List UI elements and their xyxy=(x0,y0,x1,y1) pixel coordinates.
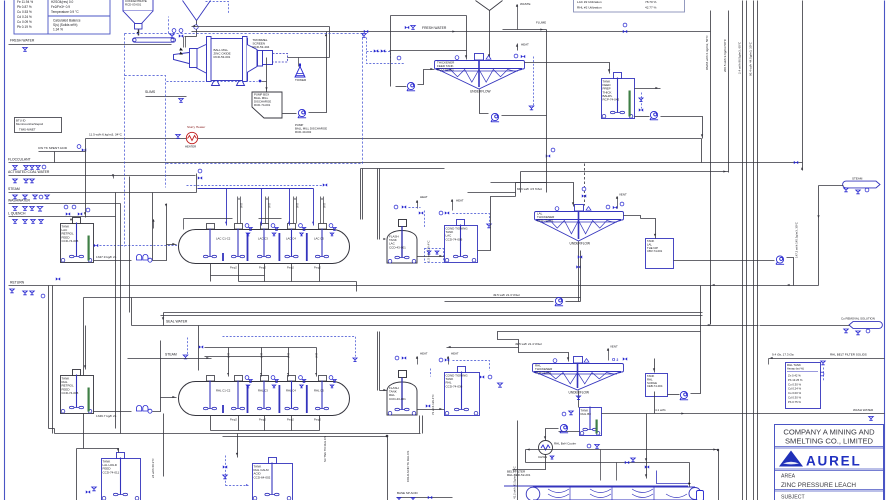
svg-text:FLUME: FLUME xyxy=(536,21,546,25)
pump RHL BF xyxy=(560,424,568,432)
wire x420 pair xyxy=(419,416,421,434)
svg-text:Pb 13.25 %: Pb 13.25 % xyxy=(788,378,803,382)
wire x710 lower xyxy=(710,286,712,325)
svg-text:200.5 wt/h 9.6g/m3 50°C: 200.5 wt/h 9.6g/m3 50°C xyxy=(723,38,727,72)
svg-text:WASTE: WASTE xyxy=(520,2,531,6)
wire tank LAC outlet xyxy=(94,260,132,262)
pump tank feed prep xyxy=(650,111,658,119)
wire flocculant extended xyxy=(331,162,803,164)
wire RHL thickener underflow xyxy=(578,391,580,408)
valves under steam capsule xyxy=(844,188,849,192)
wire x131 down xyxy=(131,298,133,326)
pump thickener feed xyxy=(407,82,415,90)
instrument dashed cluster top mid xyxy=(367,38,405,64)
valves flocculant xyxy=(13,166,18,170)
svg-text:HEAT: HEAT xyxy=(456,199,464,203)
svg-text:FLOCCULANT: FLOCCULANT xyxy=(8,157,31,161)
wire pump to header xyxy=(635,116,650,118)
instrument conditioning1 xyxy=(453,214,490,225)
instrument dashed conditioning2 xyxy=(453,361,490,371)
svg-text:RHL C5: RHL C5 xyxy=(314,389,324,393)
svg-text:CW TK SPENT ACID: CW TK SPENT ACID xyxy=(38,146,68,150)
svg-text:HEATER: HEATER xyxy=(185,145,196,149)
svg-text:Pmp2: Pmp2 xyxy=(314,266,321,270)
wire steam branch y171 xyxy=(521,171,729,173)
belt filter xyxy=(504,486,701,500)
svg-text:CCD-74-005: CCD-74-005 xyxy=(62,391,79,395)
svg-text:CCD-43-001: CCD-43-001 xyxy=(389,397,406,401)
svg-text:Pmp2: Pmp2 xyxy=(259,266,266,270)
tank RHL retrol feed xyxy=(61,370,94,414)
svg-text:9.4 t3s, 17.3 t3a: 9.4 t3s, 17.3 t3a xyxy=(772,353,794,357)
svg-text:L QUENCH: L QUENCH xyxy=(8,211,26,215)
wire LAL thickener overflow xyxy=(624,216,641,219)
svg-text:HEAT: HEAT xyxy=(420,195,428,199)
svg-text:RHL BELT FILTER SOLIDS: RHL BELT FILTER SOLIDS xyxy=(830,353,867,357)
pump ball mill discharge xyxy=(298,109,306,117)
svg-text:COMPANY A MINING AND: COMPANY A MINING AND xyxy=(783,428,875,437)
wire x152 steam drop xyxy=(152,193,154,261)
wire flash2 to conditioning2 xyxy=(418,409,445,411)
wire into pump box xyxy=(262,81,267,83)
svg-text:Pb 0.87 %: Pb 0.87 % xyxy=(17,5,32,9)
title block xyxy=(775,425,884,500)
svg-text:SMELTING CO., LIMITED: SMELTING CO., LIMITED xyxy=(785,437,874,446)
wire to autoclave 1 xyxy=(153,245,177,261)
wire tank to pump2 xyxy=(559,431,580,433)
valves washwater xyxy=(13,207,18,211)
slurry heater xyxy=(186,132,197,143)
wire pump discharge to return drop xyxy=(787,258,794,286)
svg-text:UNDERFLOW: UNDERFLOW xyxy=(470,89,491,93)
wire x87 down xyxy=(83,298,85,449)
svg-text:RHL #2 Utilization: RHL #2 Utilization xyxy=(577,5,602,9)
wire RHL top feed header xyxy=(205,347,317,349)
svg-text:AUREL: AUREL xyxy=(806,454,862,469)
svg-text:72 wt/h 129.4°C: 72 wt/h 129.4°C xyxy=(431,394,435,415)
svg-text:RCD-40-002: RCD-40-002 xyxy=(295,130,312,134)
box tank LAL N/P xyxy=(646,239,674,269)
wire thickener1 overflow to tank xyxy=(525,63,610,74)
svg-text:WASH WATER: WASH WATER xyxy=(853,408,874,412)
instrument near flash2 nozzle xyxy=(395,356,399,360)
svg-text:VNT: VNT xyxy=(288,353,291,358)
wire RHL second header xyxy=(205,356,289,358)
wire into LAL box xyxy=(641,219,656,239)
valves coal water xyxy=(13,179,18,183)
svg-text:CCD-74-005: CCD-74-005 xyxy=(62,239,79,243)
svg-text:49.5 wt/h 21.3 %Sol: 49.5 wt/h 21.3 %Sol xyxy=(493,293,520,297)
valves steam header xyxy=(13,195,18,199)
svg-text:2: 2 xyxy=(617,358,619,362)
svg-text:LAC C3: LAC C3 xyxy=(258,237,268,241)
valve on flocculant x796 xyxy=(794,161,798,164)
svg-text:Assay (wt %): Assay (wt %) xyxy=(787,367,804,371)
svg-text:Pmp2: Pmp2 xyxy=(287,266,294,270)
wire header junction x196 xyxy=(196,174,198,193)
svg-text:RHL BxH Cooler: RHL BxH Cooler xyxy=(554,442,576,446)
wire LAL thickener feed stepped xyxy=(478,197,516,251)
pump thickener1 underflow xyxy=(491,113,499,121)
wire surge tank feed xyxy=(654,359,656,373)
tank RHL BF xyxy=(580,407,602,436)
instrument blue cluster left of mill xyxy=(172,29,176,33)
ball mill xyxy=(174,37,273,86)
pump LAL transfer xyxy=(776,256,784,264)
svg-text:HEAT: HEAT xyxy=(451,352,459,356)
valve near steam x200 xyxy=(198,176,202,179)
conditioning tank LAC CCD-74-006 xyxy=(445,220,478,263)
svg-text:WASHWATER: WASHWATER xyxy=(8,198,30,202)
wire mill circuit vertical x329 xyxy=(329,27,331,58)
svg-text:STEAM: STEAM xyxy=(8,187,20,191)
flash tank RHL CCD-43-001 xyxy=(387,371,417,416)
svg-text:BASE SP ACID: BASE SP ACID xyxy=(397,491,418,495)
wire x115 down xyxy=(115,193,117,429)
svg-text:S(s) (Solids wt%): S(s) (Solids wt%) xyxy=(53,23,77,27)
svg-text:CCD-43-001: CCD-43-001 xyxy=(389,245,406,249)
conditioning tank RHL CCD-74-036 xyxy=(445,367,480,416)
svg-text:LAC C4: LAC C4 xyxy=(286,237,296,241)
svg-text:147.2 wt/h 145.3g/m3, 30°C: 147.2 wt/h 145.3g/m3, 30°C xyxy=(795,222,799,258)
flag steam supply xyxy=(843,181,880,188)
instrument dashed line y81 xyxy=(167,81,258,83)
wire feed into RHL tank xyxy=(85,326,87,370)
svg-text:Cd 0.30 %: Cd 0.30 % xyxy=(788,396,802,400)
wire pump discharge riser xyxy=(309,32,327,113)
wire x387 drop xyxy=(387,437,389,500)
svg-text:HEAT: HEAT xyxy=(521,43,529,47)
instrument dashed tank level xyxy=(94,244,98,247)
autoclave LAC xyxy=(179,230,350,264)
pump metering LAC xyxy=(137,254,153,262)
svg-text:84.6 wt/h 4.5 %Sol: 84.6 wt/h 4.5 %Sol xyxy=(517,187,542,191)
svg-text:Calculated Balance: Calculated Balance xyxy=(53,19,81,23)
bin concentrate hopper xyxy=(123,0,153,29)
svg-text:ACTIVATED COAL WATER: ACTIVATED COAL WATER xyxy=(8,170,50,174)
svg-text:SEAL WATER: SEAL WATER xyxy=(166,320,188,324)
svg-text:RCD-03-001: RCD-03-001 xyxy=(125,3,142,7)
svg-text:2.4 wt/h 96.5g/m3, 60°C: 2.4 wt/h 96.5g/m3, 60°C xyxy=(738,41,742,74)
wire rhl c4 tank drop xyxy=(237,434,239,458)
svg-text:MumCountInoSteps2: MumCountInoSteps2 xyxy=(16,122,44,126)
wire x166 upper leg xyxy=(166,204,168,245)
wire underflow pump discharge xyxy=(502,115,547,117)
svg-text:SLIMS: SLIMS xyxy=(145,90,156,94)
cooler RHL BxH xyxy=(539,441,553,455)
wire feed stubs y218 xyxy=(184,218,233,220)
valves return header xyxy=(10,289,15,293)
pump box ball mill discharge xyxy=(252,92,282,118)
instrument dashed box right of flash1 xyxy=(425,249,444,263)
svg-text:Slurry Heater: Slurry Heater xyxy=(187,125,205,129)
svg-text:24 wt/h 60.3°C: 24 wt/h 60.3°C xyxy=(151,457,155,478)
svg-text:Pmp2: Pmp2 xyxy=(287,418,294,422)
wire header y325 seal water xyxy=(132,325,759,327)
svg-text:RHL C4: RHL C4 xyxy=(286,389,296,393)
svg-text:RHL BF: RHL BF xyxy=(581,412,592,416)
svg-text:STEAM: STEAM xyxy=(852,177,863,181)
small blue box at belt end xyxy=(697,491,704,500)
wire thickener1 underflow xyxy=(480,90,489,114)
wire pump to cooler xyxy=(546,429,559,441)
instrument dashed x584 xyxy=(584,164,586,206)
wire flash1 to conditioning xyxy=(418,256,445,258)
svg-text:RHL C3: RHL C3 xyxy=(258,389,268,393)
valves l quench xyxy=(13,220,18,224)
wire co removal line xyxy=(760,325,850,327)
wire RHL thickener feed stepped xyxy=(498,332,701,362)
wire x85 feed down to tank xyxy=(85,139,87,218)
instrument dashed header y336 xyxy=(223,337,356,357)
valve left of tank RHL BF xyxy=(569,411,574,415)
box drawing id xyxy=(15,118,62,133)
svg-text:RHL C1-C2: RHL C1-C2 xyxy=(216,389,231,393)
wire discharge header y433 xyxy=(55,433,421,435)
svg-text:VNT: VNT xyxy=(228,353,231,358)
wire mill feed drop xyxy=(196,21,198,37)
wire x511 down xyxy=(517,421,519,500)
svg-text:LAC #2 Utilization: LAC #2 Utilization xyxy=(577,0,602,4)
instrument dashed top xyxy=(206,2,229,14)
wire surge tank to pump suction xyxy=(668,394,680,396)
wire header y297 xyxy=(84,297,581,299)
svg-text:Co 0.09 %: Co 0.09 % xyxy=(17,20,32,24)
svg-text:COLD ACID TK RHL CS: COLD ACID TK RHL CS xyxy=(406,451,410,482)
svg-text:SUBJECT: SUBJECT xyxy=(781,495,805,500)
thickener LAC xyxy=(435,54,525,90)
valve slims xyxy=(179,99,184,103)
svg-text:HEAT: HEAT xyxy=(420,352,428,356)
svg-text:CEB-74-004: CEB-74-004 xyxy=(647,384,663,388)
svg-text:Co 0.00 %: Co 0.00 % xyxy=(788,391,802,395)
valve pair thickener1 rim xyxy=(514,54,518,58)
wire header y315 xyxy=(161,315,703,317)
wire seal water drop x198 xyxy=(198,326,200,371)
table autoclave utilization xyxy=(574,0,685,12)
wire return line y26 xyxy=(192,26,330,28)
svg-text:STEAM: STEAM xyxy=(165,353,177,357)
wire branch left y347 xyxy=(447,347,519,349)
wire vertical stream line x710 xyxy=(710,11,712,325)
table RHL tank assay xyxy=(786,363,821,409)
wire surge tank drain xyxy=(654,392,656,414)
svg-text:DMA5 wt/h 6.3g/m3, 50°C: DMA5 wt/h 6.3g/m3, 50°C xyxy=(705,34,709,70)
svg-text:Pmp2: Pmp2 xyxy=(314,418,321,422)
svg-text:CBV-74-001: CBV-74-001 xyxy=(647,249,663,253)
svg-text:VNT: VNT xyxy=(324,203,327,208)
instrument dashed header y185 xyxy=(187,185,323,187)
wire x163 upper drop xyxy=(163,313,165,326)
wire RHL tank outlet xyxy=(94,411,132,413)
svg-text:78.70 %: 78.70 % xyxy=(645,0,657,4)
svg-text:AREA: AREA xyxy=(781,474,796,480)
svg-text:Cu 0.53 %: Cu 0.53 % xyxy=(17,10,32,14)
belt feeder conveyor xyxy=(133,38,176,42)
wire belt wash y449 xyxy=(526,449,719,451)
svg-text:TOWER: TOWER xyxy=(295,78,307,82)
wire vertical stream line x728 xyxy=(728,11,730,173)
valve on y33 xyxy=(364,30,368,33)
wire x52 down xyxy=(52,286,54,434)
svg-text:Co REMOVAL SOLUTION: Co REMOVAL SOLUTION xyxy=(841,317,875,321)
valves LAL thickener rim xyxy=(606,205,610,209)
wire fresh water header xyxy=(9,44,172,46)
svg-text:Pb 0.75 %: Pb 0.75 % xyxy=(788,400,801,404)
svg-text:H2SO4(res) 0.0: H2SO4(res) 0.0 xyxy=(51,0,74,4)
svg-text:FRESH WATER: FRESH WATER xyxy=(422,26,447,30)
pump metering RHL xyxy=(137,405,153,413)
svg-text:Pmp2: Pmp2 xyxy=(230,266,237,270)
wire cooler to belt filter xyxy=(513,455,546,470)
drawing frame left border xyxy=(4,1,6,500)
svg-text:42.77 %: 42.77 % xyxy=(645,5,657,9)
svg-text:Zn 0.42 %: Zn 0.42 % xyxy=(788,374,801,378)
wire x580 drop xyxy=(580,251,582,302)
svg-text:Fe 11.94 %: Fe 11.94 % xyxy=(17,0,33,4)
svg-text:TIMS-NINET: TIMS-NINET xyxy=(19,128,36,132)
svg-text:96.4 wt/h 44.5g/m3, 30°C: 96.4 wt/h 44.5g/m3, 30°C xyxy=(749,41,753,76)
wire x163 down xyxy=(163,414,165,477)
valves co removal xyxy=(844,329,849,333)
svg-text:CFD-75-001: CFD-75-001 xyxy=(537,219,554,223)
valve fresh water xyxy=(23,48,28,52)
svg-text:LAC C1-C2: LAC C1-C2 xyxy=(216,237,231,241)
svg-text:Temperature 0.9 °C: Temperature 0.9 °C xyxy=(51,10,79,14)
wire x120 down xyxy=(120,204,122,434)
svg-text:Pmp2: Pmp2 xyxy=(259,418,266,422)
wire vertical line x802 xyxy=(802,1,804,171)
svg-text:Cd 0.24 %: Cd 0.24 % xyxy=(17,15,32,19)
valve rhl tank box xyxy=(821,361,826,365)
svg-text:VENT: VENT xyxy=(619,193,627,197)
wire LAC top feed header blue xyxy=(198,188,314,190)
tank LAL hold CCD-74-011 xyxy=(102,453,141,500)
autoclave RHL xyxy=(179,382,350,416)
valve x646 xyxy=(645,465,649,468)
pump LAL underflow transfer xyxy=(555,297,563,305)
svg-text:Pmp2: Pmp2 xyxy=(230,418,237,422)
flash tank LAC CCD-43-001 xyxy=(387,220,417,264)
wire to tower xyxy=(298,58,300,67)
svg-text:RCP-74-042: RCP-74-042 xyxy=(603,98,620,102)
tank RHL calm acid CCD-64-002 xyxy=(253,458,293,500)
wire v-funnel xyxy=(476,1,490,11)
valve on flume drop xyxy=(546,154,550,157)
svg-text:RCD-53-001: RCD-53-001 xyxy=(214,55,231,59)
table raw material assay xyxy=(14,0,110,34)
wire tank overflow right xyxy=(635,88,661,90)
wire LAC flash feed xyxy=(360,169,362,220)
svg-text:Fe2/Fe3+ 0.9: Fe2/Fe3+ 0.9 xyxy=(51,5,70,9)
tank RHL surge box xyxy=(646,374,668,397)
svg-text:VENT: VENT xyxy=(610,345,618,349)
wire x700 upper leg xyxy=(700,286,702,332)
wire x646 down to belt xyxy=(646,414,648,479)
svg-text:1.34 %: 1.34 % xyxy=(53,28,63,32)
logo AUREL triangle xyxy=(779,451,803,467)
svg-text:CFB-75-001: CFB-75-001 xyxy=(535,371,552,375)
wire vertical stream pair x742 xyxy=(742,1,744,500)
instrument dashed right of flash1 xyxy=(424,211,426,229)
svg-text:1347.9 kg/h 2s: 1347.9 kg/h 2s xyxy=(96,255,117,259)
instrument cluster right of tank xyxy=(639,98,643,101)
svg-text:UNDERFLOW: UNDERFLOW xyxy=(570,241,591,245)
wire pump box to pump xyxy=(283,113,297,115)
svg-text:FRESH WATER: FRESH WATER xyxy=(10,39,35,43)
wire bin outlet xyxy=(137,32,140,35)
instrument dashed battery limit xyxy=(124,34,126,247)
instrument dashed x187 xyxy=(187,338,189,356)
svg-text:Cd 0.24 %: Cd 0.24 % xyxy=(788,387,802,391)
wire flash2 feed xyxy=(377,332,379,391)
wire ball mill feed arrows xyxy=(179,48,183,52)
svg-text:11.5 wt/h 6.kg/m3, 34°C: 11.5 wt/h 6.kg/m3, 34°C xyxy=(89,133,123,137)
svg-text:1349.7 kg/h 2s: 1349.7 kg/h 2s xyxy=(96,414,117,418)
wire blue belt feed xyxy=(657,471,689,484)
wire RHL bottom discharge xyxy=(210,416,212,431)
svg-text:VNT: VNT xyxy=(241,203,244,208)
wire x160 down xyxy=(160,341,162,398)
svg-text:RETURN: RETURN xyxy=(10,281,25,285)
svg-text:CCD-64-002: CCD-64-002 xyxy=(254,475,271,479)
svg-text:RHL CED-52-201: RHL CED-52-201 xyxy=(507,473,531,477)
valve wash water xyxy=(869,417,874,421)
instrument cluster above tank LAC xyxy=(64,205,68,209)
instrument flash1 xyxy=(402,205,406,208)
wire thickener1 feed loop xyxy=(390,16,392,87)
svg-text:LAC C5: LAC C5 xyxy=(314,237,324,241)
svg-text:41.2 wt/h 41.5g/m3, 70°C: 41.2 wt/h 41.5g/m3, 70°C xyxy=(513,466,517,499)
wire steam capsule drop xyxy=(818,186,820,286)
svg-text:ZINC PRESSURE LEACH: ZINC PRESSURE LEACH xyxy=(781,482,856,489)
mill feed hopper funnel xyxy=(183,1,197,21)
tank feed prep RCP-74-042 xyxy=(602,73,635,119)
wire vertical stream pair x753 xyxy=(753,1,755,500)
wire to autoclave 2 xyxy=(153,398,177,412)
svg-text:49.5 wt/h 21.4 %Sol: 49.5 wt/h 21.4 %Sol xyxy=(515,342,542,346)
svg-text:VNT: VNT xyxy=(316,353,319,358)
svg-text:CCD-74-011: CCD-74-011 xyxy=(103,470,120,474)
svg-text:VNT: VNT xyxy=(261,353,264,358)
svg-text:Pb 0.19 %: Pb 0.19 % xyxy=(17,25,32,29)
thickener LAL CFD-75-001 xyxy=(535,205,624,242)
flag co removal xyxy=(849,322,882,329)
tower symbol xyxy=(295,67,305,78)
svg-text:4.1 wt%: 4.1 wt% xyxy=(655,408,666,412)
svg-text:CCD-74-036: CCD-74-036 xyxy=(446,384,463,388)
vent risers LAC xyxy=(237,197,239,224)
wire header y312 xyxy=(164,312,703,314)
wire LAL underflow down to pump line xyxy=(578,242,580,302)
wire trommel discharge xyxy=(288,57,330,59)
svg-text:VNT: VNT xyxy=(269,203,272,208)
wire x129 down xyxy=(129,177,131,313)
wire feed tank LAL hold xyxy=(77,449,119,453)
wire y301 to pump xyxy=(445,301,554,303)
pump bottom right xyxy=(680,391,688,399)
instrument dashed x533 xyxy=(533,57,535,107)
instrument dashed bottom left xyxy=(225,456,227,486)
instrument conditioning2 xyxy=(480,375,484,378)
wire drops to belt xyxy=(600,450,602,481)
svg-text:RCD-53-404: RCD-53-404 xyxy=(253,45,270,49)
wire capsule to drop xyxy=(819,185,844,187)
wire slurry header y138 xyxy=(86,138,702,140)
wire return y285 right xyxy=(561,285,819,287)
wire pump discharge up to header xyxy=(691,332,701,394)
valves near tank LAL hold xyxy=(86,490,90,493)
